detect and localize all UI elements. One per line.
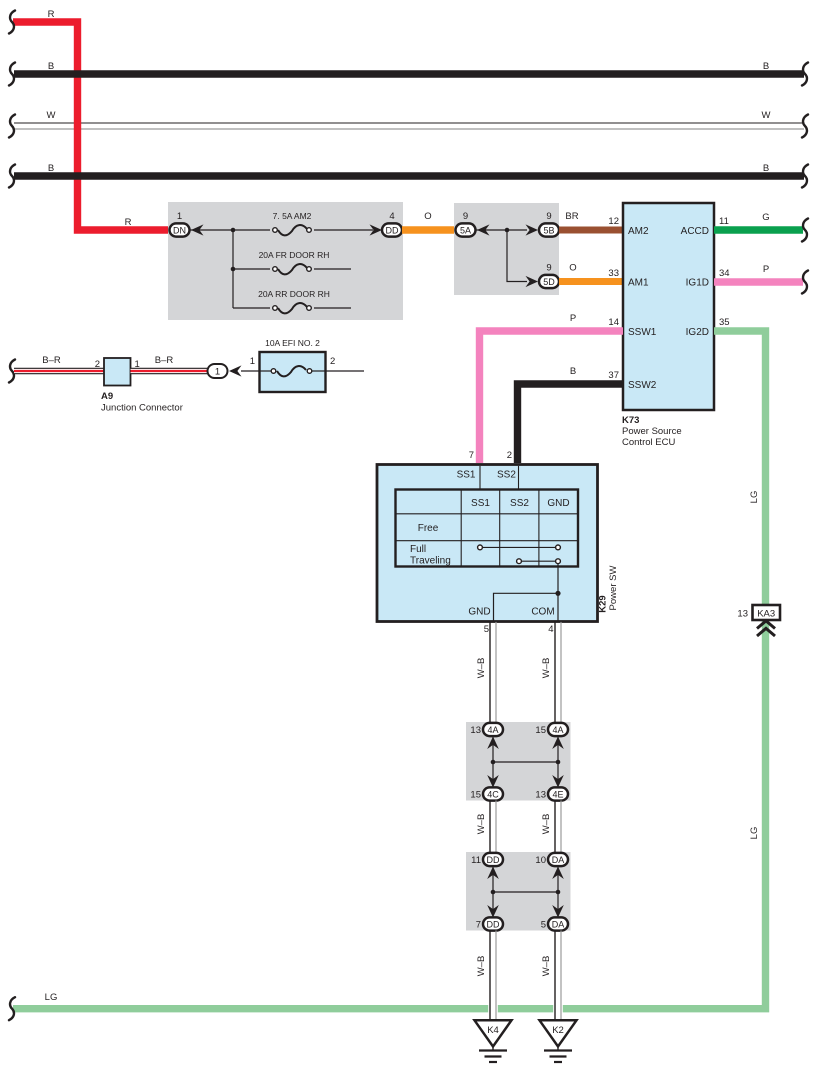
svg-text:AM2: AM2 [628, 226, 649, 237]
svg-text:R: R [48, 9, 55, 20]
connector DD pin 7 [476, 917, 503, 930]
power switch K29 box [377, 465, 598, 622]
arrow down into 4E [552, 775, 564, 788]
break symbol right B lower [802, 165, 808, 188]
svg-text:2: 2 [95, 359, 100, 370]
svg-text:SS1: SS1 [471, 498, 490, 509]
arrow into DD [370, 224, 383, 235]
svg-text:W–B: W–B [476, 814, 487, 835]
svg-text:O: O [424, 211, 431, 222]
connector DD pin 11 [471, 853, 503, 866]
svg-text:DN: DN [173, 225, 186, 235]
svg-text:2: 2 [507, 450, 512, 461]
svg-text:1: 1 [250, 356, 255, 367]
connector DA pin 10 [535, 853, 568, 866]
svg-text:B: B [763, 163, 769, 174]
node junction row1 [231, 228, 236, 233]
arrow into 5A [477, 224, 490, 235]
op ECU K73 box [623, 203, 714, 410]
svg-text:20A FR DOOR RH: 20A FR DOOR RH [259, 250, 330, 260]
connector DD pin 4 [382, 211, 402, 237]
svg-text:5B: 5B [543, 225, 554, 235]
break symbol left R [9, 11, 15, 34]
svg-text:12: 12 [608, 216, 619, 227]
svg-text:9: 9 [546, 263, 551, 274]
arrow down into DA lower [552, 905, 564, 918]
junction block 2 (gray) [454, 203, 559, 295]
wire vertical branch [232, 230, 234, 308]
node junction row2 [231, 267, 236, 272]
break symbol left W [9, 115, 15, 138]
wire W-B left segment A [490, 622, 496, 723]
junction block J/B No.1 (gray box with fuses) [168, 202, 403, 320]
connector 4E pin 13 [535, 787, 568, 800]
wire R (red, from top-left down to fuse box) [13, 22, 169, 230]
svg-text:SSW1: SSW1 [628, 327, 657, 338]
break left LG bottom [9, 997, 15, 1020]
connector KA3 pin 13 [737, 605, 780, 620]
wire internal right [557, 866, 559, 917]
svg-text:LG: LG [749, 491, 760, 504]
connector 4C pin 15 [470, 787, 503, 800]
connector 1 oval [208, 364, 228, 378]
svg-text:W: W [47, 110, 56, 121]
svg-text:DA: DA [552, 919, 565, 929]
svg-text:15: 15 [535, 725, 546, 736]
svg-text:4: 4 [389, 211, 394, 222]
node right [556, 890, 561, 895]
node left [491, 890, 496, 895]
wire W-B left segment C [490, 931, 496, 1021]
fuse 10A EFI NO.2 [250, 338, 336, 392]
junction block 3 (gray) [466, 722, 571, 801]
svg-text:W–B: W–B [476, 956, 487, 977]
wire W (white, horizontal bus) [14, 123, 804, 129]
svg-text:4E: 4E [552, 789, 563, 799]
switch contact SS1-GND [478, 545, 561, 550]
svg-text:W: W [762, 110, 771, 121]
arrow down into 4C [487, 775, 499, 788]
svg-text:B–R: B–R [155, 355, 174, 366]
arrow into 5D [526, 276, 539, 287]
svg-text:COM: COM [531, 607, 554, 618]
ground K4 [475, 1020, 512, 1062]
wire row2 [233, 268, 351, 270]
svg-text:35: 35 [719, 317, 730, 328]
svg-text:K2: K2 [552, 1025, 564, 1036]
wire row 5A-5B [476, 229, 527, 231]
svg-text:7. 5A AM2: 7. 5A AM2 [273, 211, 312, 221]
svg-text:B–R: B–R [42, 355, 61, 366]
break symbol right W [802, 115, 808, 138]
wire to 5D [507, 230, 527, 282]
connector 4A pin 13 [470, 723, 503, 736]
svg-text:11: 11 [719, 216, 729, 227]
label K29 Power SW [598, 566, 620, 613]
svg-text:10A EFI NO. 2: 10A EFI NO. 2 [265, 338, 320, 348]
wire O 5D to ECU [559, 278, 623, 285]
wire B (black bus, upper) [14, 70, 804, 77]
svg-text:IG2D: IG2D [686, 327, 709, 338]
svg-text:A9: A9 [101, 391, 113, 402]
svg-text:34: 34 [719, 268, 730, 279]
node junction COM [555, 591, 560, 596]
svg-text:11: 11 [471, 855, 481, 866]
arrow into 5B [526, 224, 539, 235]
svg-text:ACCD: ACCD [681, 226, 709, 237]
svg-text:W–B: W–B [541, 956, 552, 977]
svg-text:1: 1 [215, 367, 220, 378]
svg-text:GND: GND [547, 498, 569, 509]
break right G [802, 219, 808, 242]
wire O between DD and 5A [402, 226, 456, 233]
svg-text:W–B: W–B [476, 658, 487, 679]
wire P SSW1 to power switch [480, 331, 624, 463]
svg-text:20A RR DOOR RH: 20A RR DOOR RH [258, 289, 330, 299]
svg-text:DD: DD [487, 855, 500, 865]
connector DA pin 5 [541, 917, 568, 930]
junction connector A9 [95, 358, 183, 414]
wire right of EFI fuse [326, 370, 365, 372]
svg-text:SS2: SS2 [510, 498, 529, 509]
connector DN pin 1 [170, 211, 190, 237]
svg-text:5: 5 [541, 920, 546, 931]
wire P from IG1D [714, 278, 803, 285]
wire row1 inside box [190, 229, 373, 231]
svg-text:33: 33 [608, 268, 619, 279]
svg-text:Free: Free [418, 523, 439, 534]
svg-text:P: P [763, 264, 769, 275]
svg-text:GND: GND [468, 607, 490, 618]
connector 5D pin 9 [539, 263, 559, 289]
svg-text:9: 9 [546, 211, 551, 222]
svg-text:13: 13 [535, 790, 546, 801]
svg-text:KA3: KA3 [757, 608, 775, 619]
svg-text:5D: 5D [543, 277, 555, 287]
wire to EFI fuse [241, 370, 259, 372]
svg-text:Full: Full [410, 544, 426, 555]
wire B SSW2 to power switch [518, 384, 624, 463]
svg-text:B: B [763, 61, 769, 72]
svg-text:7: 7 [476, 920, 481, 931]
wire W-B right segment B [555, 801, 561, 854]
svg-text:P: P [570, 313, 576, 324]
svg-text:Control ECU: Control ECU [622, 437, 675, 448]
arrow down into DD lower [487, 905, 499, 918]
wire GND/COM internal [494, 564, 559, 621]
connector 5B pin 9 [539, 211, 559, 237]
wire B-R segment 1 [14, 368, 104, 375]
svg-text:13: 13 [470, 725, 481, 736]
svg-text:SS1: SS1 [457, 470, 476, 481]
svg-text:9: 9 [463, 211, 468, 222]
svg-text:O: O [569, 263, 576, 274]
svg-text:DD: DD [386, 225, 399, 235]
switch contact SS2-GND [517, 559, 561, 564]
svg-text:B: B [48, 61, 54, 72]
svg-text:DA: DA [552, 855, 565, 865]
svg-text:W–B: W–B [541, 658, 552, 679]
svg-text:13: 13 [737, 608, 748, 619]
wire internal left [492, 866, 494, 917]
break symbol left B lower [9, 165, 15, 188]
connector 4A pin 15 [535, 723, 568, 736]
break right P [802, 271, 808, 294]
break symbol left B upper [9, 63, 15, 86]
wire B (black bus, lower) [14, 172, 804, 179]
wire BR 5B to ECU [559, 227, 623, 234]
wire cross link [493, 891, 558, 893]
svg-text:4C: 4C [487, 789, 499, 799]
fuse 20A RR DOOR RH [258, 289, 330, 314]
connector 5A pin 9 [456, 211, 476, 237]
wire internal left [492, 736, 494, 787]
node right [556, 760, 561, 765]
svg-text:DD: DD [487, 919, 500, 929]
wire B-R segment 2 [131, 368, 209, 375]
svg-text:5A: 5A [460, 225, 471, 235]
svg-text:LG: LG [45, 992, 58, 1003]
svg-text:W–B: W–B [541, 814, 552, 835]
wire LG from IG2D down right side and across bottom [13, 331, 766, 1009]
svg-text:14: 14 [608, 317, 619, 328]
svg-text:4A: 4A [552, 725, 563, 735]
fuse 20A FR DOOR RH [259, 250, 330, 275]
svg-text:4: 4 [548, 624, 553, 635]
svg-text:Traveling: Traveling [410, 556, 451, 567]
svg-text:7: 7 [469, 450, 474, 461]
svg-text:Junction Connector: Junction Connector [101, 403, 183, 414]
arrow up into 4A right [552, 737, 564, 750]
switch state table [396, 490, 579, 567]
arrow up into DA right [552, 867, 564, 880]
junction block 4 (gray) [466, 852, 571, 931]
chevron arrows below KA3 [757, 621, 775, 636]
svg-text:5: 5 [484, 624, 489, 635]
wire cross link [493, 761, 558, 763]
svg-text:4A: 4A [487, 725, 498, 735]
wire row3 [233, 307, 351, 309]
svg-text:15: 15 [470, 790, 481, 801]
svg-text:IG1D: IG1D [686, 278, 709, 289]
svg-text:37: 37 [608, 370, 619, 381]
arrow up into DD left [487, 867, 499, 880]
break left B-R [9, 360, 15, 383]
wire W-B right segment A [555, 622, 561, 723]
svg-text:K4: K4 [487, 1025, 499, 1036]
svg-text:SSW2: SSW2 [628, 380, 657, 391]
wire W-B left segment B [490, 801, 496, 854]
ground K2 [540, 1020, 577, 1062]
svg-text:Power SW: Power SW [608, 566, 619, 611]
svg-text:BR: BR [565, 211, 578, 222]
svg-text:2: 2 [330, 356, 335, 367]
wire stub SS2 [518, 466, 520, 490]
svg-text:LG: LG [749, 827, 760, 840]
break symbol right B upper [802, 63, 808, 86]
wire stub SS1 [479, 466, 481, 490]
svg-text:1: 1 [177, 211, 182, 222]
wire G from ACCD [714, 226, 803, 233]
svg-text:K73: K73 [622, 415, 639, 426]
wire W-B right segment C [555, 931, 561, 1021]
svg-text:SS2: SS2 [497, 470, 516, 481]
arrow into DN [191, 224, 204, 235]
svg-text:G: G [762, 212, 769, 223]
svg-text:10: 10 [535, 855, 546, 866]
arrow into connector 1 [229, 365, 242, 376]
arrow up into 4A left [487, 737, 499, 750]
svg-text:B: B [570, 366, 576, 377]
svg-text:K29: K29 [598, 595, 609, 612]
wire internal right [557, 736, 559, 787]
svg-text:R: R [125, 217, 132, 228]
label K73 Power Source Control ECU [622, 415, 682, 448]
fuse 7.5A AM2 [270, 211, 314, 236]
svg-text:AM1: AM1 [628, 278, 649, 289]
svg-text:B: B [48, 163, 54, 174]
node junction [505, 228, 510, 233]
node left [491, 760, 496, 765]
svg-text:Power Source: Power Source [622, 426, 682, 437]
